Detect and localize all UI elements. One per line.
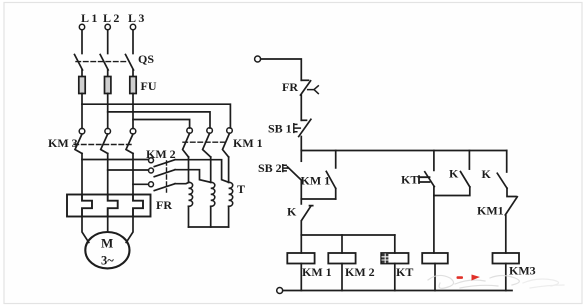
- svg-text:KM 1: KM 1: [233, 136, 263, 150]
- wire L1 to QS: [81, 30, 83, 54]
- watermark red marks: [457, 275, 481, 281]
- wire phase C to KM1 pole1: [133, 94, 190, 129]
- FR heater 3: [133, 195, 143, 217]
- svg-text:SB 1: SB 1: [268, 122, 292, 136]
- wire T coil1 bottom: [188, 206, 190, 227]
- wire phase C down to KM3 pole3: [132, 120, 134, 129]
- svg-text:K: K: [287, 204, 297, 218]
- wire T coil2 bottom: [210, 206, 212, 227]
- wire KM2 tap1 to T coil3 top: [175, 160, 229, 183]
- svg-text:KM 1: KM 1: [302, 265, 332, 279]
- pushbutton SB2 (NO start): [300, 151, 302, 162]
- terminal L1: [79, 24, 84, 29]
- wire K coil to bottom bus: [434, 264, 436, 291]
- wire SB1 to bus: [300, 137, 302, 151]
- wire KM3 pole3 down to FR: [132, 154, 134, 195]
- wire KM2 tap3 to T coil1 top: [175, 182, 189, 183]
- control bottom bus: [283, 290, 512, 292]
- KM3 linkage dashed: [74, 144, 131, 146]
- svg-text:KM1: KM1: [477, 204, 504, 218]
- wire T coil3 bottom: [228, 206, 230, 227]
- svg-text:K: K: [449, 167, 459, 181]
- wire QS to FU pole1: [81, 70, 83, 77]
- contactor KM3 pole3: [130, 128, 136, 134]
- svg-text:KM 2: KM 2: [146, 147, 176, 161]
- coil KM2: [328, 253, 355, 264]
- wire phase A to KM1 pole3: [82, 94, 230, 129]
- wire KM1 coil to bottom bus: [300, 264, 302, 291]
- wire FR to SB1: [300, 95, 302, 120]
- control top bus: [301, 150, 506, 152]
- wire L2 to QS: [107, 30, 109, 54]
- svg-text:KT: KT: [396, 265, 413, 279]
- watermark faint tail: [523, 279, 564, 288]
- svg-text:FR: FR: [282, 80, 298, 94]
- wire KM1 pole1 to T coil1: [188, 157, 190, 182]
- wire to KT coil: [394, 235, 396, 253]
- wire KM2 tap2 to T coil2 top: [175, 170, 211, 183]
- contactor KM1 pole3: [227, 128, 233, 134]
- contact K (NO) below SB2: [300, 199, 302, 204]
- wire KM3 pole2 down to FR: [107, 154, 109, 195]
- terminal L3: [130, 24, 135, 29]
- KM1 linkage dashed: [183, 141, 227, 143]
- wire KT coil to bottom bus: [394, 264, 396, 291]
- QS linkage dashed: [76, 61, 128, 63]
- svg-text:KM 3: KM 3: [48, 136, 78, 150]
- switch QS pole 1 blade: [75, 55, 83, 71]
- wire FR to motor 1: [82, 217, 89, 243]
- svg-text:3~: 3~: [101, 254, 114, 268]
- svg-text:KM 1: KM 1: [301, 174, 331, 188]
- autotransformer T coil2: [211, 182, 215, 206]
- contact K right (NO): [506, 151, 508, 173]
- switch QS pole 2 blade: [100, 55, 108, 71]
- watermark scribbles: [428, 275, 519, 288]
- svg-text:L 3: L 3: [128, 11, 144, 25]
- control supply terminal top: [255, 56, 261, 62]
- T star bus: [189, 226, 229, 228]
- svg-text:L 2: L 2: [103, 11, 119, 25]
- junction SB2/KM1: [301, 198, 335, 200]
- coil K: [422, 253, 448, 264]
- wire tap phaseA to KM2 c1: [82, 159, 148, 161]
- contact K left (NO): [468, 151, 470, 170]
- wire KM1 pole3 to T coil3: [228, 157, 230, 182]
- wire QS to FU pole3: [132, 70, 134, 77]
- svg-text:M: M: [101, 236, 113, 251]
- pushbutton SB1 (NC): [301, 119, 306, 121]
- contact KT (NO time-delay): [433, 151, 435, 171]
- coil KM3: [493, 253, 520, 264]
- contact KM1 aux (NO): [335, 151, 337, 168]
- wire to KM2 coil: [341, 235, 343, 253]
- wire tap phaseC to KM2 c3: [133, 183, 148, 185]
- control supply terminal bottom: [277, 288, 283, 294]
- wire SB2 down: [300, 180, 302, 199]
- wire FR to motor 3: [126, 217, 133, 243]
- wire KM3 coil to bottom bus: [505, 264, 507, 291]
- switch QS pole 3 blade: [126, 55, 134, 71]
- contactor KM3 pole2: [105, 128, 111, 134]
- FR heater 2: [108, 195, 118, 217]
- wire terminal to FR contact: [261, 59, 302, 80]
- wire KM3 pole1 down to FR: [81, 154, 83, 195]
- wire to K coil: [433, 196, 435, 254]
- junction bus2 coils: [301, 234, 395, 236]
- fuse FU 3: [132, 77, 134, 94]
- thermal relay FR box: [67, 195, 151, 217]
- motor M: [85, 232, 129, 268]
- autotransformer T coil3: [229, 182, 233, 206]
- contact FR (NC thermal): [301, 79, 308, 81]
- contactor KM1 pole2: [207, 128, 213, 134]
- wire phase B down to KM3 pole2: [107, 112, 109, 128]
- svg-text:KT: KT: [401, 173, 418, 187]
- wire phase B to KM1 pole2: [108, 94, 210, 129]
- wire KT branch down: [433, 187, 435, 196]
- contactor KM1 pole1: [187, 128, 193, 134]
- terminal L2: [105, 24, 110, 29]
- contactor KM2 pole3: [149, 182, 154, 187]
- FR heater 1: [82, 195, 92, 217]
- wire to KM1 coil: [300, 235, 302, 253]
- KM2 linkage dashed: [166, 161, 168, 192]
- autotransformer T coil1: [189, 182, 193, 206]
- coil KT: [381, 253, 408, 264]
- wire KM1 pole2 to T coil2: [210, 157, 212, 182]
- svg-text:T: T: [237, 182, 245, 196]
- wire tap phaseB to KM2 c2: [108, 169, 149, 171]
- wire QS to FU pole2: [107, 70, 109, 77]
- svg-text:SB 2: SB 2: [258, 161, 282, 175]
- svg-text:FU: FU: [141, 79, 157, 93]
- junction KT/K: [434, 187, 470, 196]
- contact KM1 (NC interlock): [507, 188, 516, 196]
- svg-text:L 1: L 1: [81, 11, 97, 25]
- wire phase A down to KM3 pole1: [81, 104, 83, 128]
- contactor KM2 pole2: [149, 168, 154, 173]
- svg-text:KM3: KM3: [509, 264, 536, 278]
- svg-text:FR: FR: [156, 198, 172, 212]
- svg-text:KM 2: KM 2: [345, 265, 375, 279]
- contactor KM2 pole1: [149, 158, 154, 163]
- contactor KM3 pole1: [79, 128, 85, 134]
- fuse FU 1: [81, 77, 83, 94]
- wire L3 to QS: [132, 30, 134, 54]
- wire FR to motor 2: [107, 217, 109, 233]
- svg-text:K: K: [482, 167, 492, 181]
- svg-text:QS: QS: [138, 52, 154, 66]
- fuse FU 2: [107, 77, 109, 94]
- coil KM1: [287, 253, 314, 264]
- wire KM2 coil to bottom bus: [341, 264, 343, 291]
